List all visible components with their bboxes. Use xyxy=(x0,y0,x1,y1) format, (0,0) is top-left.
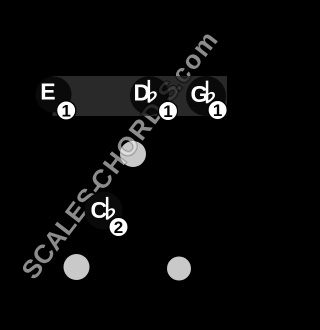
svg-text:1: 1 xyxy=(213,101,222,120)
note circle E xyxy=(36,77,72,113)
note circle Gb xyxy=(186,76,226,116)
finger 2 on Cb xyxy=(109,217,128,236)
note circle Db xyxy=(130,76,169,115)
svg-text:1: 1 xyxy=(163,102,172,121)
svg-text:G: G xyxy=(191,81,209,107)
note circle Cb xyxy=(85,192,123,230)
scale dot C xyxy=(167,257,191,281)
scale dot B xyxy=(64,254,90,280)
flat sign of Cb xyxy=(106,197,115,220)
svg-text:1: 1 xyxy=(61,101,70,120)
svg-text:2: 2 xyxy=(114,218,123,237)
finger 1 on Gb xyxy=(208,100,227,119)
svg-text:E: E xyxy=(40,78,55,104)
finger 1 on E xyxy=(57,101,76,120)
flat sign of Gb xyxy=(206,81,215,104)
watermark pass over dots xyxy=(15,24,226,285)
finger 1 on Db xyxy=(158,101,177,120)
watermark SCALES-CHORDS.com (base pass on background) xyxy=(15,24,226,285)
barre/fret bar xyxy=(53,76,228,116)
svg-text:C: C xyxy=(91,197,108,223)
scale dot A xyxy=(120,141,146,167)
flat sign of Db xyxy=(148,80,157,103)
watermark pass over bar (dark silhouette) xyxy=(15,24,226,285)
